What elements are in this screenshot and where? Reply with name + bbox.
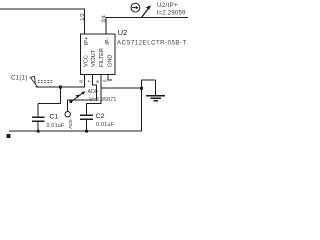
wire VCC to C1 [38, 87, 60, 104]
junction node VCC rail [59, 85, 62, 88]
svg-text:C1: C1 [50, 114, 59, 121]
terminal AD0 [65, 112, 70, 117]
svg-text:U2: U2 [118, 28, 127, 37]
wire C1 bottom [37, 122, 39, 132]
svg-text:0.01uF: 0.01uF [96, 122, 115, 128]
wire IP+ feed [0, 9, 85, 34]
svg-text:ACS712ELCTR-05B-T: ACS712ELCTR-05B-T [117, 41, 187, 47]
voltage probe C1(1) [30, 76, 52, 87]
wire IP- feed [106, 18, 188, 35]
wire VCC rail [36, 75, 85, 88]
svg-text:C2: C2 [96, 113, 105, 120]
junction node probe attach [69, 100, 72, 103]
voltage probe AD0 arrows [71, 91, 85, 101]
wire ground bridge [142, 80, 156, 88]
wire C2 bottom [86, 120, 88, 132]
svg-text:IP+: IP+ [84, 37, 90, 46]
svg-text:AD0: AD0 [68, 119, 74, 129]
origin marker square [7, 134, 11, 138]
op-amp U2 chip body [81, 34, 115, 75]
svg-text:VIOUT: VIOUT [91, 49, 97, 67]
wire VIOUT to terminal AD0 [68, 75, 97, 112]
svg-text:3/4: 3/4 [102, 15, 108, 23]
svg-text:GND: GND [107, 55, 113, 67]
wire FILTER to C2 [87, 75, 101, 115]
svg-text:8: 8 [79, 80, 84, 83]
svg-text:6: 6 [95, 80, 100, 83]
capacitor C2 [80, 115, 93, 119]
svg-text:1/2: 1/2 [80, 13, 86, 21]
svg-text:0.01uF: 0.01uF [47, 123, 66, 129]
junction node GND riser [140, 87, 143, 90]
svg-text:V=2.95871: V=2.95871 [89, 97, 116, 103]
svg-text:U2/IP+: U2/IP+ [157, 2, 178, 9]
junction node C1 rail [37, 130, 40, 133]
wire C1 top stub [37, 104, 39, 117]
wire GND stub [108, 75, 112, 80]
wire ground drop to rail [9, 88, 142, 131]
svg-text:VCC: VCC [83, 55, 89, 67]
svg-text:IP-: IP- [105, 38, 111, 45]
svg-text:I=2.29059: I=2.29059 [157, 9, 186, 16]
ground [146, 80, 165, 101]
svg-text:FILTER: FILTER [99, 48, 105, 67]
wire FILTER branch [101, 87, 142, 89]
junction node C2 rail [85, 130, 88, 133]
svg-text:5: 5 [103, 79, 108, 82]
current probe U2/IP+ [131, 3, 151, 17]
svg-text:C1(1): C1(1) [11, 75, 28, 81]
capacitor C1 [32, 117, 45, 121]
svg-text:AD0: AD0 [88, 89, 98, 95]
svg-text:7: 7 [87, 80, 92, 83]
